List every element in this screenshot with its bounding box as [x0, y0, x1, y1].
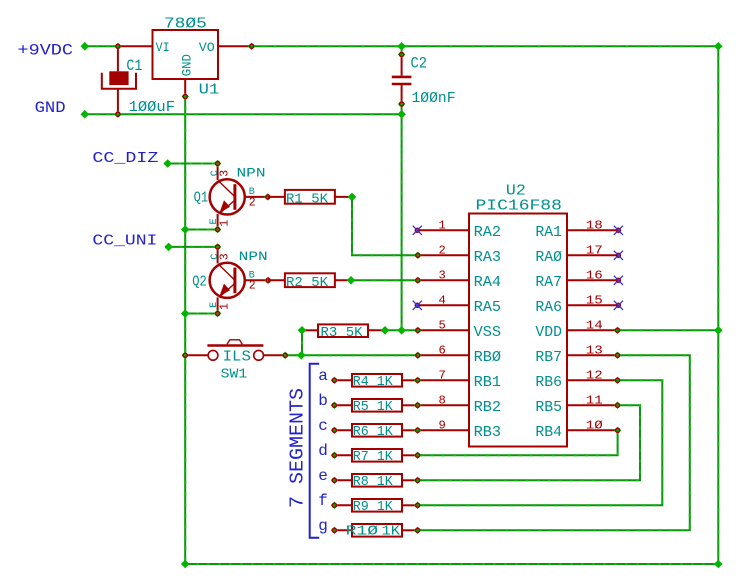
U2 right pin 10 (RB4) — [567, 429, 618, 431]
U2 left pin 4 (RA5) — [418, 304, 469, 306]
svg-text:RA3: RA3 — [474, 250, 502, 266]
wire VDD to right rail — [618, 329, 719, 331]
svg-text:RB6: RB6 — [535, 375, 562, 391]
capacitor C2 plates — [392, 76, 412, 79]
svg-text:RB5: RB5 — [535, 400, 562, 416]
U2 pin 15 no-connect X — [616, 303, 620, 307]
svg-text:78Ø5: 78Ø5 — [164, 16, 207, 33]
svg-text:R3 5K: R3 5K — [321, 325, 364, 341]
U2 pin 5 junction — [414, 327, 421, 334]
svg-text:2: 2 — [438, 243, 445, 257]
transistor Q2 — [210, 263, 245, 298]
wire C2 bottom / VSS vertical — [401, 104, 403, 330]
U2 right pin 17 (RA0) — [567, 254, 618, 256]
svg-text:d: d — [318, 442, 328, 460]
svg-text:RA6: RA6 — [535, 300, 562, 316]
U2 pin 10 junction — [614, 427, 621, 434]
svg-text:R2 5K: R2 5K — [286, 275, 329, 291]
svg-text:4: 4 — [438, 293, 445, 307]
U2 pin 6 junction — [414, 352, 421, 359]
R3 left junction — [298, 326, 307, 335]
U2 pin 13 junction — [614, 352, 621, 359]
U2 left pin 6 (RB0) — [418, 354, 469, 356]
svg-text:RA7: RA7 — [535, 275, 562, 291]
capacitor C1 wires — [117, 46, 119, 71]
C1 junction top — [114, 43, 121, 50]
C2 pin top — [398, 51, 405, 58]
resistor R6 — [352, 424, 402, 437]
svg-text:12: 12 — [586, 368, 603, 382]
svg-text:7: 7 — [438, 368, 445, 382]
resistor R7 — [352, 449, 402, 462]
svg-text:1K: 1K — [382, 525, 402, 540]
wire RB7 to segment g — [418, 355, 690, 530]
U1 pin VI — [118, 45, 153, 47]
wire R1 to RA3 — [352, 197, 418, 255]
svg-text:CC_DIZ: CC_DIZ — [92, 149, 158, 167]
svg-text:PIC16F88: PIC16F88 — [476, 198, 562, 215]
svg-text:VDD: VDD — [535, 325, 562, 341]
U2 left pin 2 (RA3) — [418, 254, 469, 256]
svg-text:e: e — [318, 467, 328, 485]
svg-text:17: 17 — [586, 243, 603, 257]
U2 right pin 14 (VDD) — [567, 329, 618, 331]
R6 left junction — [331, 427, 338, 434]
svg-text:VO: VO — [199, 40, 215, 55]
svg-text:RB4: RB4 — [535, 425, 562, 441]
svg-text:9: 9 — [438, 418, 445, 432]
svg-text:NPN: NPN — [239, 249, 268, 264]
svg-text:R7 1K: R7 1K — [353, 450, 394, 465]
svg-text:GND: GND — [179, 54, 194, 76]
svg-text:VI: VI — [156, 40, 170, 55]
svg-text:R9 1K: R9 1K — [353, 500, 394, 515]
svg-text:7 SEGMENTS: 7 SEGMENTS — [287, 388, 309, 508]
svg-text:3: 3 — [219, 253, 232, 260]
U2 pin 1 no-connect X — [415, 228, 419, 232]
Q2 base pin — [245, 279, 268, 281]
U2 right pin 15 (RA6) — [567, 304, 618, 306]
svg-text:16: 16 — [586, 268, 603, 282]
bottom-left corner junction — [181, 560, 190, 569]
C2 junction GND rail — [397, 110, 406, 119]
svg-text:R1Ø: R1Ø — [346, 525, 379, 540]
U2 left pin 8 (RB2) — [418, 404, 469, 406]
svg-text:RB1: RB1 — [474, 375, 502, 391]
U2 pin 4 no-connect X — [415, 303, 419, 307]
svg-text:RA5: RA5 — [474, 300, 502, 316]
resistor R2 — [285, 273, 335, 287]
Q1 emitter rail junction — [181, 225, 190, 234]
Q1 emitter pin — [217, 214, 219, 230]
resistor R4 — [352, 374, 402, 387]
svg-text:RB7: RB7 — [535, 350, 562, 366]
resistor R1 — [285, 190, 335, 204]
U2 right pin 16 (RA7) — [567, 279, 618, 281]
svg-text:NPN: NPN — [237, 166, 266, 181]
IC U2 box — [469, 214, 567, 447]
U2 left pin 7 (RB1) — [418, 379, 469, 381]
Q1 collector pin — [217, 164, 219, 181]
svg-text:a: a — [318, 367, 328, 385]
wire C2 top stub — [401, 46, 403, 54]
svg-text:1ØØnF: 1ØØnF — [412, 91, 456, 107]
svg-text:3: 3 — [219, 170, 232, 177]
R2 right junction — [347, 276, 356, 285]
U2 pin 14 junction — [614, 327, 621, 334]
svg-text:VSS: VSS — [474, 325, 502, 341]
U2 pin 18 no-connect X — [616, 228, 620, 232]
svg-text:RAØ: RAØ — [535, 250, 562, 266]
resistor R10 — [352, 524, 402, 537]
svg-text:1Ø: 1Ø — [586, 418, 603, 432]
R8 left junction — [331, 477, 338, 484]
R10 left junction — [331, 527, 338, 534]
svg-text:RA2: RA2 — [474, 225, 502, 241]
capacitor C1 body — [109, 71, 128, 85]
svg-text:2: 2 — [249, 196, 256, 209]
wire GND rail — [85, 113, 402, 115]
C1 junction bottom — [114, 111, 121, 118]
wire CC_UNI net — [169, 246, 218, 248]
transistor Q1 — [210, 179, 245, 214]
Q2 emitter pin — [217, 297, 219, 313]
U1 pin GND — [184, 79, 186, 97]
R10 right junction — [414, 527, 421, 534]
svg-text:5: 5 — [438, 318, 445, 332]
svg-text:GND: GND — [35, 99, 66, 117]
svg-text:18: 18 — [586, 218, 603, 232]
svg-text:C1: C1 — [126, 57, 142, 75]
svg-text:R1 5K: R1 5K — [286, 191, 329, 207]
U2 right pin 12 (RB6) — [567, 379, 618, 381]
svg-text:1: 1 — [219, 303, 232, 310]
svg-text:R4 1K: R4 1K — [353, 375, 394, 390]
C2 junction top rail — [397, 42, 406, 51]
svg-text:CC_UNI: CC_UNI — [92, 232, 157, 250]
svg-text:g: g — [318, 517, 328, 535]
wire +9VDC net — [85, 45, 118, 47]
wire R2 to RA4 — [351, 279, 418, 281]
top-right corner junction — [714, 42, 723, 51]
svg-text:f: f — [318, 492, 328, 510]
wire +5V top rail — [252, 45, 719, 47]
svg-text:RBØ: RBØ — [474, 350, 502, 366]
svg-text:6: 6 — [438, 343, 445, 357]
Q2 emitter rail junction — [181, 309, 190, 318]
wire RB0 row — [285, 354, 418, 356]
U2 pin 2 junction — [414, 252, 421, 259]
U2 pin 11 junction — [614, 402, 621, 409]
svg-text:R5 1K: R5 1K — [353, 400, 394, 415]
U2 pin 17 no-connect X — [616, 253, 620, 257]
svg-text:b: b — [318, 392, 328, 410]
resistor R5 — [352, 399, 402, 412]
R4 left junction — [331, 377, 338, 384]
R3/RB0 junction — [297, 351, 306, 360]
R7 left junction — [331, 452, 338, 459]
wire RB6 to segment f — [418, 380, 663, 505]
U2 left pin 1 (RA2) — [418, 229, 469, 231]
resistor R9 — [352, 499, 402, 512]
svg-text:RB3: RB3 — [474, 425, 502, 441]
wire Q2 emitter link — [185, 313, 217, 315]
svg-text:+9VDC: +9VDC — [18, 41, 74, 59]
bracket 7 segments — [310, 364, 320, 538]
svg-text:SW1: SW1 — [221, 367, 248, 383]
wire +5V right rail — [717, 46, 719, 564]
switch SW1 left contact — [208, 350, 218, 360]
VSS vertical junction — [397, 326, 406, 335]
U2 right pin 13 (RB7) — [567, 354, 618, 356]
wire left vertical rail — [184, 97, 186, 565]
wire Q1 emitter link — [185, 229, 217, 231]
resistor R3 — [318, 324, 368, 337]
Q1 base pin — [245, 196, 268, 198]
U1 pin VO — [218, 45, 252, 47]
svg-text:c: c — [318, 417, 328, 435]
R9 right junction — [414, 502, 421, 509]
svg-text:15: 15 — [586, 293, 603, 307]
regulator U1 box — [153, 30, 219, 79]
switch SW1 actuator — [227, 340, 242, 344]
U2 left pin 5 (VSS) — [418, 329, 469, 331]
svg-text:RA4: RA4 — [474, 275, 502, 291]
svg-text:1: 1 — [219, 220, 232, 227]
svg-text:13: 13 — [586, 343, 603, 357]
svg-text:1ØØuF: 1ØØuF — [129, 100, 175, 116]
SW1 right lead — [264, 354, 286, 356]
svg-text:2: 2 — [249, 280, 256, 293]
svg-text:RA1: RA1 — [535, 225, 562, 241]
U2 pin 12 junction — [614, 377, 621, 384]
svg-text:R8 1K: R8 1K — [353, 475, 394, 490]
wire CC_DIZ net — [168, 163, 218, 165]
R3 right junction — [381, 326, 390, 335]
U2 pin 3 junction — [414, 277, 421, 284]
VDD rail junction — [714, 326, 723, 335]
capacitor C2 wires — [401, 55, 403, 76]
R6 right junction — [414, 427, 421, 434]
switch SW1 bar — [207, 344, 263, 347]
svg-text:11: 11 — [586, 393, 603, 407]
U2 pin 16 no-connect X — [616, 278, 620, 282]
wire R3 right to VSS — [385, 329, 418, 331]
Q2 collector pin — [217, 247, 219, 264]
svg-text:ILS: ILS — [223, 349, 251, 365]
R9 left junction — [331, 502, 338, 509]
wire RB4 to segment d — [418, 430, 618, 455]
svg-text:8: 8 — [438, 393, 445, 407]
R7 right junction — [414, 452, 421, 459]
U2 right pin 11 (RB5) — [567, 404, 618, 406]
R5 right junction — [414, 402, 421, 409]
U2 right pin 18 (RA1) — [567, 229, 618, 231]
svg-text:Q2: Q2 — [192, 275, 207, 291]
svg-text:3: 3 — [438, 268, 445, 282]
svg-text:Q1: Q1 — [194, 191, 209, 207]
C2 pin bottom — [398, 100, 405, 107]
wire bottom rail — [185, 563, 718, 565]
svg-text:RB2: RB2 — [474, 400, 502, 416]
U2 left pin 3 (RA4) — [418, 279, 469, 281]
svg-text:U1: U1 — [199, 82, 220, 99]
SW1 left lead — [185, 354, 208, 356]
switch SW1 right contact — [254, 350, 264, 360]
resistor R8 — [352, 474, 402, 487]
wire R3 left vertical — [301, 330, 303, 355]
bottom-right corner junction — [714, 560, 723, 569]
R1 right junction — [348, 193, 357, 202]
svg-text:C2: C2 — [411, 55, 428, 73]
U2 left pin 9 (RB3) — [418, 429, 469, 431]
svg-text:1: 1 — [438, 218, 445, 232]
wire RB5 to segment e — [418, 405, 640, 480]
R8 right junction — [414, 477, 421, 484]
R4 right junction — [414, 377, 421, 384]
svg-text:R6 1K: R6 1K — [353, 425, 394, 440]
R5 left junction — [331, 402, 338, 409]
svg-text:14: 14 — [586, 318, 603, 332]
